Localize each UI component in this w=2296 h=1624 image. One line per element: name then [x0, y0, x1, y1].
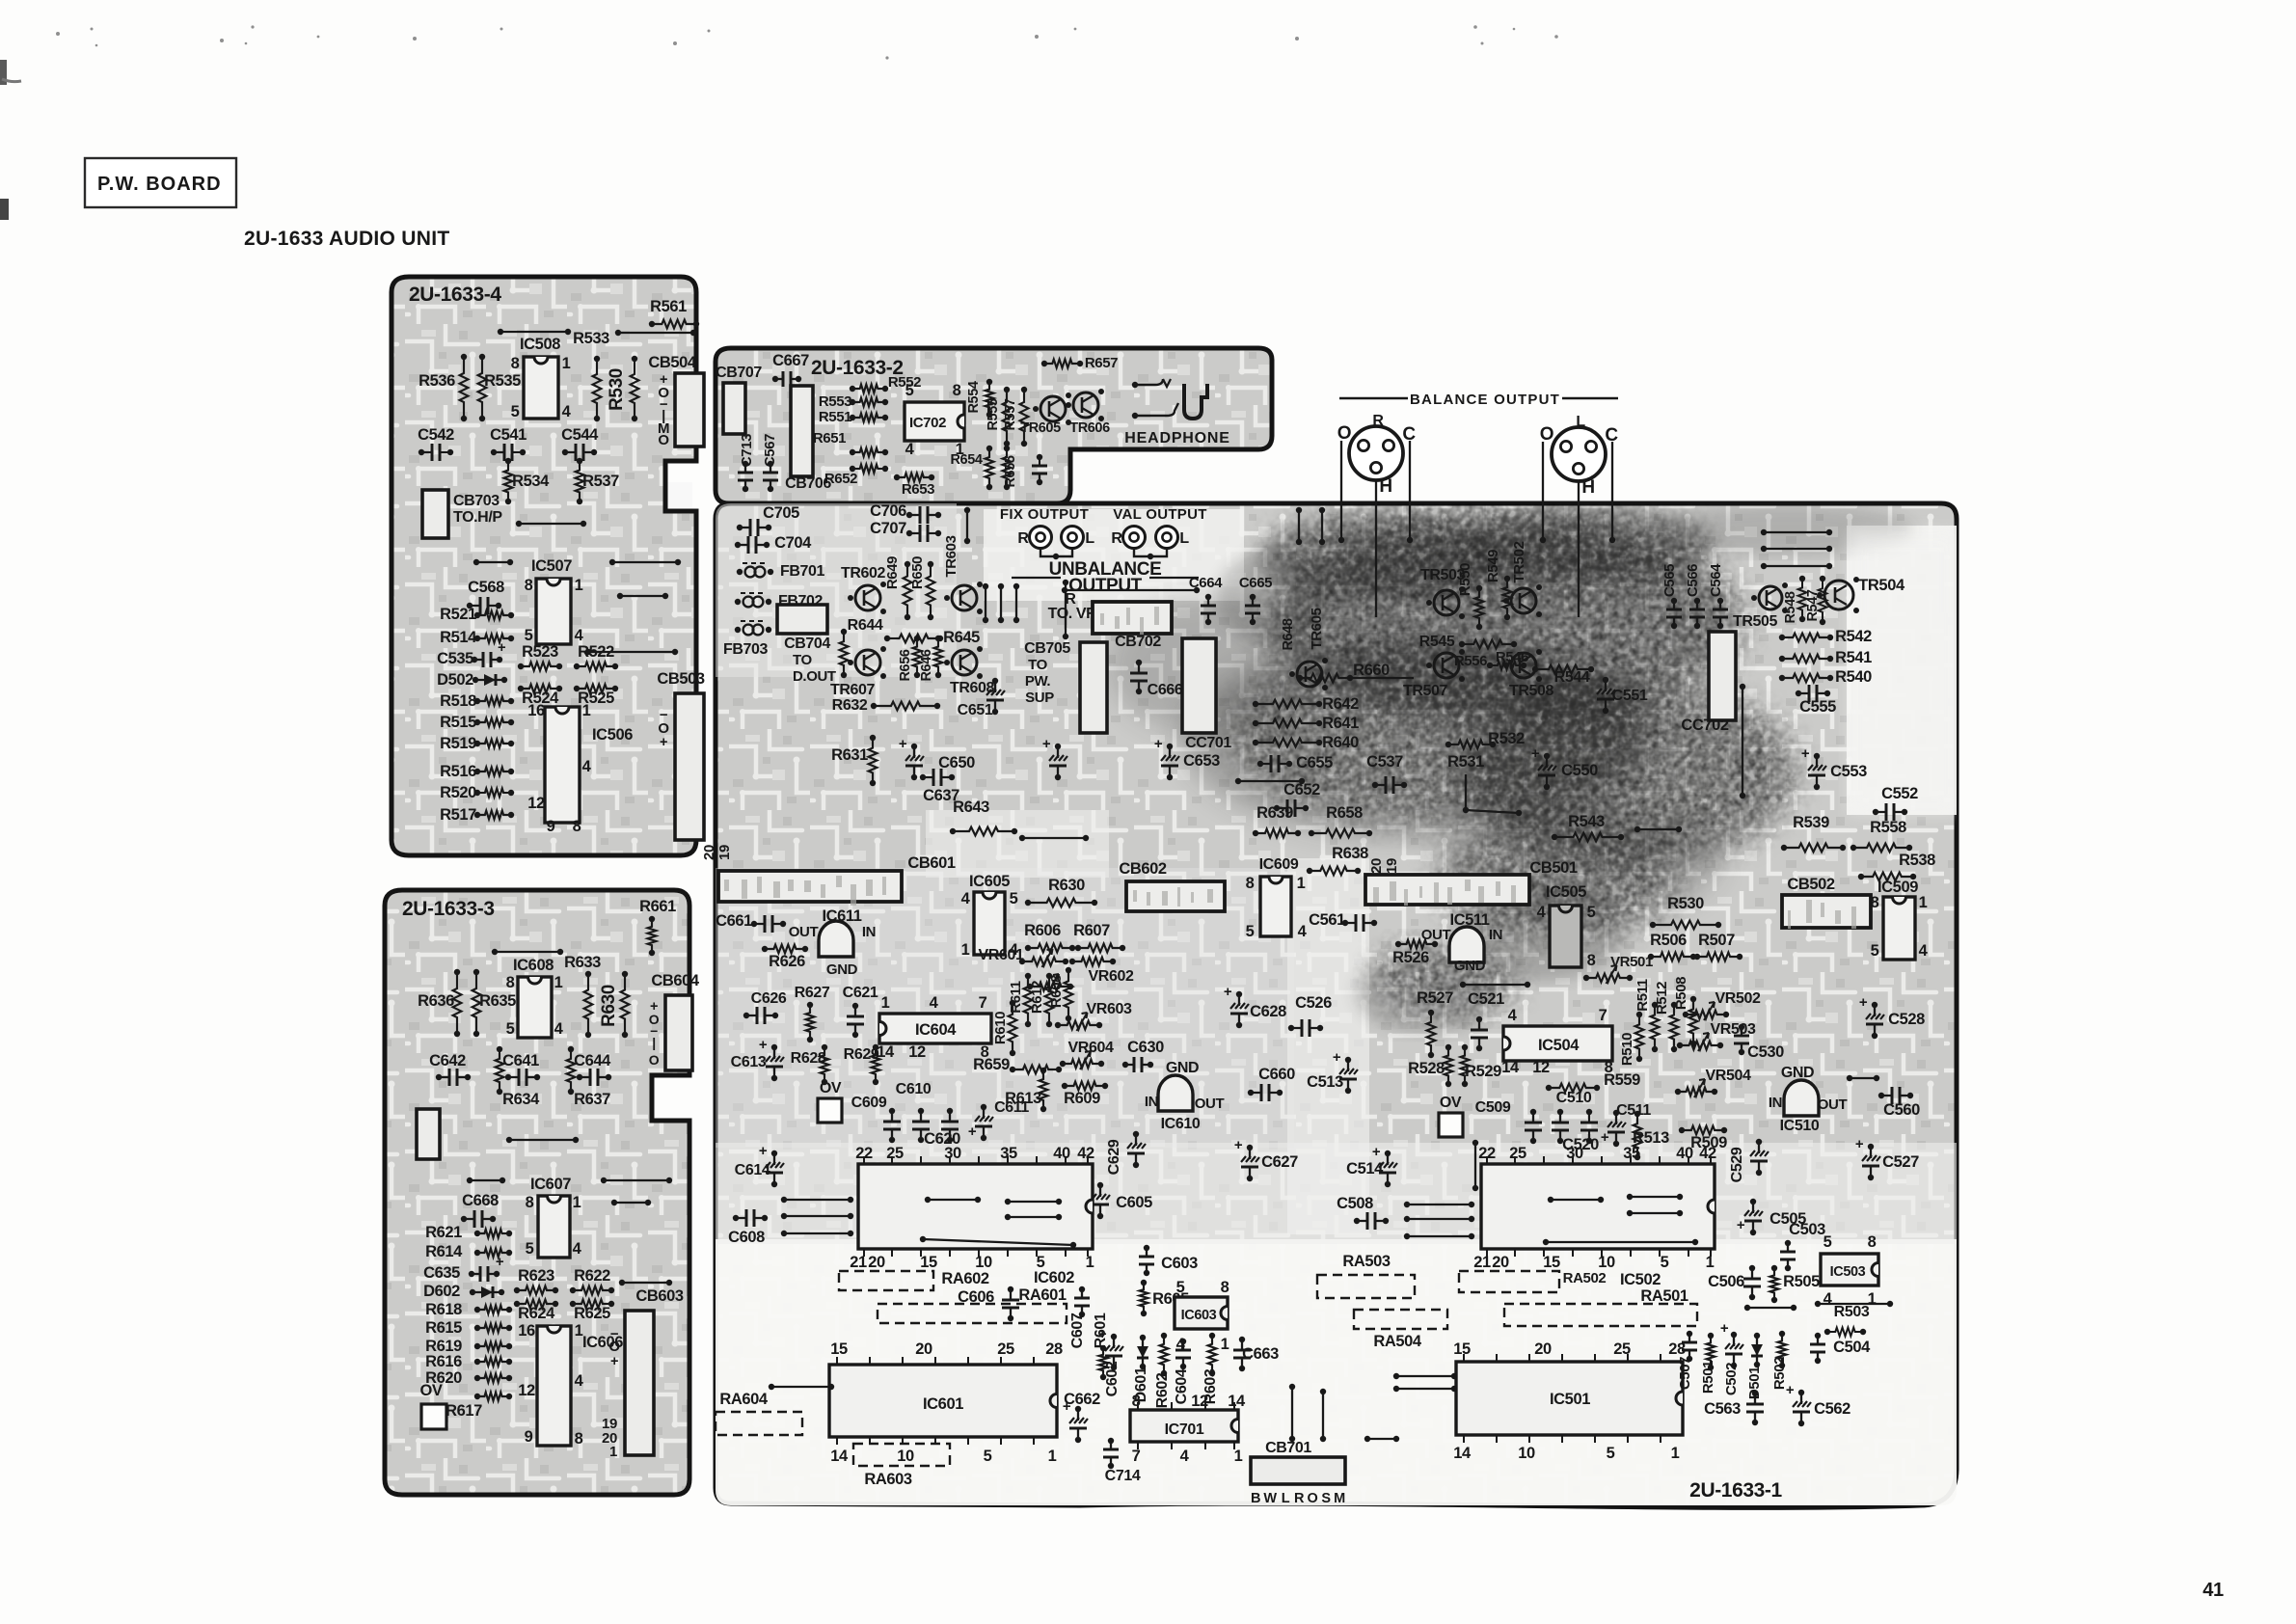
svg-text:TR603: TR603: [943, 535, 959, 577]
svg-text:C661: C661: [716, 912, 752, 930]
transistor TR605: [1040, 396, 1066, 421]
IC IC602: [858, 1164, 1093, 1249]
capacitor C527: [1870, 1147, 1872, 1177]
svg-text:VR502: VR502: [1715, 990, 1761, 1007]
svg-text:R503: R503: [1834, 1304, 1870, 1320]
svg-text:15: 15: [1543, 1254, 1560, 1271]
svg-text:TR504: TR504: [1858, 577, 1905, 594]
wire: [612, 561, 678, 563]
svg-text:R631: R631: [831, 746, 868, 764]
svg-text:R633: R633: [564, 954, 601, 971]
wire: [620, 595, 665, 597]
svg-text:C527: C527: [1882, 1153, 1919, 1171]
svg-text:35: 35: [1000, 1145, 1017, 1162]
wire: [476, 561, 510, 563]
transistor TR504: [1824, 581, 1853, 609]
svg-text:R621: R621: [425, 1224, 462, 1241]
svg-text:C550: C550: [1561, 762, 1598, 779]
resistor R509: [1682, 1126, 1724, 1135]
svg-text:R616: R616: [425, 1353, 462, 1370]
resistor array RA601: [878, 1304, 1067, 1323]
svg-text:CB707: CB707: [716, 365, 762, 381]
wire: [1015, 586, 1017, 620]
capacitor C652: [1238, 780, 1302, 782]
svg-text:5: 5: [1246, 923, 1255, 940]
wire: [519, 523, 583, 525]
svg-text:SUP: SUP: [1025, 690, 1054, 706]
svg-text:R538: R538: [1899, 852, 1935, 869]
transistor TR601: [1297, 662, 1322, 687]
svg-text:C651: C651: [958, 702, 993, 718]
svg-text:R519: R519: [440, 735, 476, 752]
capacitor C528: [1874, 1005, 1876, 1036]
wire: [1321, 510, 1323, 542]
op-amp IC702: [905, 402, 964, 441]
svg-text:1: 1: [1048, 1448, 1057, 1465]
IC502 pin tick marks: [1486, 1156, 1488, 1257]
svg-text:IC503: IC503: [1830, 1264, 1866, 1280]
resistor R624: [517, 1300, 555, 1309]
svg-text:R630: R630: [599, 985, 619, 1027]
svg-text:IC608: IC608: [513, 957, 554, 974]
capacitor C555: [1798, 692, 1827, 694]
svg-text:RA503: RA503: [1342, 1253, 1391, 1270]
svg-text:4: 4: [930, 994, 939, 1012]
svg-text:C606: C606: [958, 1288, 994, 1306]
svg-text:R617: R617: [446, 1402, 482, 1420]
svg-text:+: +: [1801, 745, 1810, 762]
svg-text:C561: C561: [1309, 911, 1345, 929]
wire: [1818, 1303, 1890, 1305]
svg-text:O: O: [608, 1339, 620, 1355]
wire: [1463, 984, 1527, 986]
svg-text:C530: C530: [1747, 1043, 1784, 1061]
wire: [1134, 549, 1167, 556]
svg-text:TR502: TR502: [1511, 541, 1527, 582]
svg-text:C535: C535: [437, 650, 473, 667]
svg-text:C537: C537: [1366, 753, 1403, 771]
svg-text:R550: R550: [1457, 563, 1473, 596]
svg-text:|: |: [652, 1035, 656, 1050]
wire: [985, 586, 986, 620]
svg-text:R521: R521: [440, 606, 476, 623]
wire: [1291, 1387, 1293, 1439]
IC IC606: [537, 1326, 571, 1446]
IC601 pin tick marks: [836, 1357, 838, 1445]
svg-text:L: L: [1282, 1491, 1290, 1506]
svg-text:TR507: TR507: [1403, 683, 1448, 699]
capacitor C637: [923, 776, 952, 778]
svg-text:20: 20: [868, 1254, 885, 1271]
svg-text:R654: R654: [950, 452, 982, 468]
svg-text:C627: C627: [1261, 1153, 1298, 1171]
IC IC506: [545, 707, 580, 823]
svg-text:30: 30: [1566, 1145, 1583, 1162]
svg-text:R540: R540: [1835, 668, 1872, 686]
svg-text:C551: C551: [1612, 688, 1648, 704]
connector CC702: [1709, 632, 1736, 720]
svg-text:8: 8: [525, 577, 533, 594]
light regions of board 1: [716, 1239, 1959, 1509]
svg-text:10: 10: [975, 1254, 992, 1271]
svg-text:+: +: [1098, 1326, 1107, 1342]
svg-text:R: R: [1294, 1491, 1305, 1506]
svg-text:R543: R543: [1568, 813, 1605, 830]
svg-text:W: W: [1263, 1491, 1277, 1506]
wire: [1022, 837, 1086, 839]
capacitor C656: [1039, 457, 1040, 482]
svg-text:R602: R602: [1154, 1372, 1171, 1408]
IC IC504: [1503, 1026, 1612, 1061]
IC IC601: [829, 1365, 1057, 1437]
svg-text:5: 5: [525, 627, 533, 644]
svg-text:5: 5: [1607, 1445, 1615, 1462]
wire: [1375, 479, 1377, 617]
svg-text:GND: GND: [1781, 1065, 1814, 1081]
capacitor C562: [1800, 1393, 1802, 1423]
board 2U-1633-3 outline: [385, 890, 689, 1495]
svg-text:RA501: RA501: [1640, 1287, 1688, 1305]
dark toner smudge regions of board 1: [1106, 505, 1914, 1034]
resistor R544: [1535, 665, 1591, 674]
svg-text:R514: R514: [440, 629, 477, 646]
ferrite bead FB702: [741, 592, 766, 594]
capacitor C551: [1605, 680, 1607, 711]
svg-text:R634: R634: [502, 1091, 540, 1108]
svg-text:1: 1: [1086, 1254, 1094, 1271]
IC602 pin tick marks: [863, 1156, 865, 1257]
connector CB601: [718, 871, 902, 902]
svg-text:IC702: IC702: [909, 415, 946, 431]
capacitor C504: [1817, 1336, 1819, 1361]
svg-text:4: 4: [961, 890, 971, 907]
wire: [470, 1179, 502, 1181]
svg-text:C629: C629: [1106, 1139, 1122, 1175]
svg-text:CC701: CC701: [1185, 735, 1231, 751]
wire: [604, 1179, 669, 1181]
svg-text:4: 4: [1823, 1290, 1833, 1308]
wire: [1542, 442, 1544, 542]
light veil over boards 2/3/4: [716, 348, 1272, 503]
wire: [1396, 1388, 1454, 1390]
wire: [1578, 480, 1580, 617]
svg-text:5: 5: [1010, 890, 1018, 907]
svg-text:VR601: VR601: [979, 947, 1024, 963]
svg-text:R638: R638: [1332, 845, 1368, 862]
svg-text:4: 4: [554, 1020, 564, 1038]
svg-text:R640: R640: [1322, 734, 1359, 751]
capacitor C666: [1138, 663, 1140, 691]
resistor R640: [1256, 739, 1319, 747]
resistor R625: [573, 1300, 611, 1309]
svg-text:4: 4: [562, 403, 572, 420]
wire: [1742, 687, 1743, 796]
wire: [1008, 1216, 1059, 1218]
resistor R637: [567, 1049, 576, 1092]
connector CB501: [1365, 875, 1529, 905]
svg-text:R: R: [1111, 530, 1122, 547]
svg-text:O: O: [1308, 1491, 1318, 1506]
svg-text:+: +: [1372, 1144, 1381, 1160]
resistor R642: [1256, 700, 1319, 709]
svg-text:25: 25: [886, 1145, 904, 1162]
svg-text:1: 1: [1297, 875, 1306, 892]
svg-text:42: 42: [1699, 1145, 1716, 1162]
svg-text:14: 14: [1501, 1059, 1520, 1076]
svg-text:4: 4: [575, 1372, 584, 1390]
IC IC701: [1130, 1410, 1238, 1442]
svg-text:TR505: TR505: [1733, 613, 1778, 630]
svg-text:C509: C509: [1475, 1099, 1511, 1116]
svg-text:PW.: PW.: [1025, 673, 1051, 690]
svg-text:2U-1633-4: 2U-1633-4: [409, 284, 501, 306]
svg-text:R508: R508: [1673, 977, 1689, 1010]
svg-text:TR606: TR606: [1069, 420, 1110, 436]
svg-text:D602: D602: [423, 1283, 460, 1300]
capacitor C655: [1260, 763, 1289, 765]
svg-text:R625: R625: [574, 1305, 610, 1322]
svg-text:CC702: CC702: [1681, 717, 1729, 734]
svg-text:R615: R615: [425, 1319, 462, 1337]
svg-text:20: 20: [1368, 858, 1385, 874]
wire: [1065, 589, 1197, 591]
svg-text:C565: C565: [1661, 564, 1678, 597]
svg-text:R530: R530: [1667, 895, 1704, 912]
wire: [1040, 549, 1072, 556]
wire: [509, 1139, 576, 1141]
svg-text:R531: R531: [1447, 753, 1484, 771]
svg-text:R: R: [1017, 530, 1029, 547]
svg-text:R659: R659: [973, 1056, 1010, 1073]
ferrite bead FB701: [743, 562, 768, 564]
svg-text:C707: C707: [870, 520, 906, 537]
svg-text:RA601: RA601: [1018, 1286, 1067, 1304]
svg-text:IC508: IC508: [520, 336, 560, 353]
wire: [1407, 1204, 1472, 1205]
svg-text:+: +: [1333, 1049, 1341, 1066]
svg-text:R642: R642: [1322, 695, 1359, 713]
svg-text:8: 8: [526, 1194, 534, 1211]
svg-text:OV: OV: [419, 1382, 442, 1399]
resistor R559: [1549, 1084, 1597, 1093]
wire: [928, 1199, 978, 1201]
svg-text:IC603: IC603: [1181, 1308, 1217, 1323]
svg-text:R658: R658: [1326, 804, 1363, 822]
svg-text:+: +: [759, 1143, 768, 1159]
svg-text:20: 20: [1492, 1254, 1509, 1271]
svg-text:R551: R551: [819, 409, 851, 425]
wire: [588, 651, 675, 653]
svg-text:IC509: IC509: [1877, 879, 1918, 896]
svg-text:R528: R528: [1408, 1060, 1445, 1077]
svg-text:5: 5: [506, 1020, 515, 1038]
svg-text:C507: C507: [1677, 1357, 1693, 1390]
svg-text:S: S: [1321, 1491, 1331, 1506]
svg-text:C611: C611: [994, 1099, 1029, 1116]
svg-text:C609: C609: [851, 1095, 887, 1111]
wire: [784, 1199, 851, 1201]
svg-text:19: 19: [1384, 858, 1400, 874]
resistor R660: [1300, 674, 1350, 683]
svg-text:2U-1633 AUDIO UNIT: 2U-1633 AUDIO UNIT: [244, 228, 450, 250]
wire: [1611, 442, 1613, 542]
resistor R552: [852, 385, 885, 393]
wire: [1008, 1201, 1059, 1203]
resistor array RA603: [853, 1444, 950, 1466]
svg-text:R627: R627: [795, 985, 830, 1001]
svg-text:15: 15: [1453, 1340, 1471, 1358]
svg-text:42: 42: [1077, 1145, 1094, 1162]
svg-text:R648: R648: [1281, 618, 1296, 650]
svg-text:+: +: [968, 1123, 977, 1140]
board 2U-1633-1 outline: [716, 503, 1957, 1507]
svg-text:R515: R515: [440, 714, 476, 731]
svg-text:C610: C610: [896, 1081, 932, 1097]
resistor R525: [577, 685, 615, 693]
svg-text:25: 25: [997, 1340, 1014, 1358]
capacitor C627: [1249, 1148, 1251, 1178]
svg-text:OUT: OUT: [1818, 1096, 1848, 1113]
svg-text:12: 12: [518, 1382, 535, 1399]
RCA jack R fix: [1030, 527, 1052, 549]
svg-text:TR508: TR508: [1509, 683, 1554, 699]
board 2U-1633-4 outline: [392, 277, 696, 855]
resistor array RA504: [1354, 1310, 1447, 1329]
svg-text:35: 35: [1623, 1145, 1640, 1162]
wire: [923, 1239, 1073, 1245]
svg-text:R622: R622: [574, 1267, 610, 1285]
svg-text:7: 7: [1599, 1007, 1607, 1024]
svg-text:5: 5: [526, 1240, 534, 1258]
svg-text:C544: C544: [561, 426, 599, 444]
svg-text:IC504: IC504: [1538, 1037, 1580, 1054]
svg-text:IC605: IC605: [969, 873, 1010, 890]
svg-text:HEADPHONE: HEADPHONE: [1124, 430, 1229, 447]
svg-text:GND: GND: [1166, 1060, 1199, 1076]
svg-text:B: B: [1251, 1491, 1260, 1506]
svg-text:IC604: IC604: [915, 1021, 957, 1039]
wire: [1850, 1077, 1877, 1079]
svg-text:D502: D502: [437, 671, 473, 689]
resistor R626: [765, 945, 805, 954]
svg-text:R612: R612: [1029, 981, 1045, 1014]
svg-text:C603: C603: [1161, 1255, 1198, 1272]
wire: [495, 951, 560, 953]
svg-text:H: H: [1379, 476, 1391, 497]
resistor R657: [1044, 360, 1080, 368]
svg-text:IC602: IC602: [1034, 1269, 1074, 1286]
svg-text:CB502: CB502: [1787, 876, 1835, 893]
svg-text:R512: R512: [1654, 982, 1670, 1015]
svg-text:16: 16: [518, 1322, 535, 1340]
svg-text:C668: C668: [462, 1192, 499, 1209]
svg-text:+: +: [1063, 1398, 1071, 1415]
svg-text:C630: C630: [1127, 1039, 1164, 1056]
svg-text:5: 5: [905, 382, 914, 399]
svg-text:TO.H/P: TO.H/P: [453, 509, 502, 526]
P.W. BOARD title box: [85, 158, 236, 207]
svg-text:14: 14: [1228, 1393, 1246, 1410]
svg-text:R533: R533: [573, 330, 609, 347]
svg-text:14: 14: [830, 1448, 849, 1465]
svg-text:VR602: VR602: [1089, 968, 1134, 985]
svg-text:CB601: CB601: [907, 854, 956, 872]
svg-text:R539: R539: [1793, 814, 1829, 831]
svg-text:12: 12: [908, 1043, 926, 1061]
svg-text:5: 5: [1823, 1233, 1832, 1251]
headphone jack wiring: [1132, 382, 1138, 388]
svg-text:C653: C653: [1183, 752, 1220, 770]
wire: [1630, 1212, 1680, 1214]
IC701 pin tick marks: [1137, 1402, 1139, 1449]
board 2U-1633-2 outline: [716, 348, 1272, 503]
RCA jack L val: [1156, 527, 1178, 549]
capacitor C553: [1816, 756, 1818, 787]
capacitor C704: [738, 544, 767, 546]
svg-text:R611: R611: [1008, 981, 1024, 1013]
svg-text:+: +: [1720, 1320, 1729, 1337]
connector CB703: [422, 490, 448, 538]
resistor R617: [477, 1393, 509, 1401]
svg-text:1: 1: [1671, 1445, 1680, 1462]
svg-text:R545: R545: [1419, 634, 1455, 650]
svg-text:30: 30: [944, 1145, 961, 1162]
wire: [1747, 1307, 1794, 1309]
svg-text:1: 1: [609, 1444, 617, 1460]
svg-text:25: 25: [1509, 1145, 1526, 1162]
svg-text:5: 5: [984, 1448, 992, 1465]
svg-text:CB503: CB503: [657, 670, 705, 688]
svg-text:H: H: [1581, 477, 1594, 498]
svg-text:R630: R630: [1048, 877, 1085, 894]
svg-text:FB703: FB703: [723, 641, 769, 658]
svg-text:40: 40: [1676, 1145, 1693, 1162]
svg-text:O: O: [658, 432, 669, 448]
svg-text:R507: R507: [1698, 932, 1735, 949]
svg-text:21: 21: [1473, 1254, 1491, 1271]
resistor R524: [521, 685, 559, 693]
svg-text:C511: C511: [1616, 1102, 1651, 1119]
svg-text:C655: C655: [1296, 754, 1333, 771]
svg-text:+: +: [759, 1037, 768, 1053]
svg-text:BALANCE OUTPUT: BALANCE OUTPUT: [1410, 392, 1560, 408]
scan speckle marks (decorative): [56, 32, 60, 36]
svg-text:C665: C665: [1239, 575, 1272, 591]
svg-text:C553: C553: [1830, 763, 1867, 780]
resistor R645: [887, 635, 940, 643]
svg-text:1: 1: [961, 941, 970, 959]
svg-text:1: 1: [881, 994, 890, 1012]
svg-text:C666: C666: [1148, 682, 1183, 698]
svg-text:IC601: IC601: [923, 1395, 963, 1413]
svg-text:R637: R637: [574, 1091, 610, 1108]
svg-text:10: 10: [1518, 1445, 1535, 1462]
svg-text:R608: R608: [1048, 975, 1065, 1008]
svg-text:C704: C704: [774, 534, 812, 552]
svg-text:1: 1: [575, 1322, 583, 1340]
wire: [614, 1202, 648, 1204]
svg-text:R537: R537: [582, 473, 619, 490]
connector CB706: [791, 386, 813, 476]
svg-text:C528: C528: [1888, 1011, 1925, 1028]
svg-text:4: 4: [1298, 923, 1308, 940]
IC IC501: [1456, 1362, 1683, 1435]
svg-text:9: 9: [547, 818, 555, 835]
capacitor (electrolytic): [1057, 746, 1059, 777]
svg-text:4: 4: [573, 1240, 582, 1258]
transistor TR607: [855, 650, 880, 675]
svg-text:R554: R554: [966, 381, 982, 413]
